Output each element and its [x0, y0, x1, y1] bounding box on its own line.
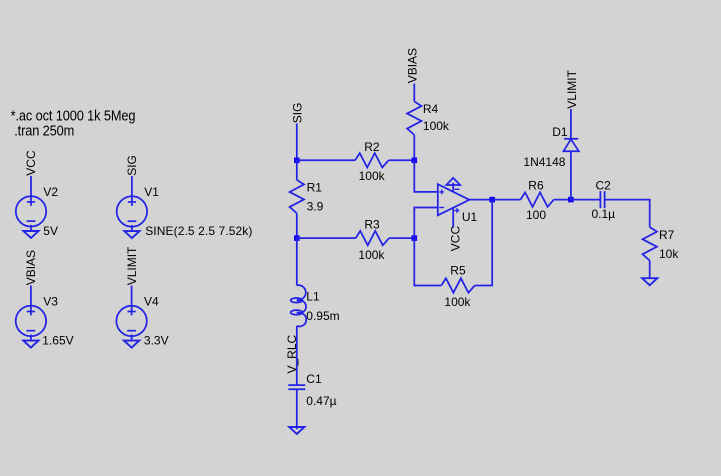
svg-text:0.95m: 0.95m — [306, 309, 339, 323]
wire feedback node D down — [414, 238, 441, 285]
wire SIG label to node A — [296, 123, 298, 160]
op-amp U1 — [438, 183, 470, 228]
svg-text:R4: R4 — [423, 102, 439, 116]
svg-text:VCC: VCC — [448, 226, 462, 252]
resistor R4 — [407, 101, 421, 134]
ground below C1 — [289, 427, 304, 434]
ground below R7 — [642, 278, 657, 285]
svg-text:.tran 250m: .tran 250m — [14, 122, 74, 139]
svg-text:C1: C1 — [306, 372, 322, 386]
inductor L1 — [291, 285, 307, 326]
diode D1 — [564, 139, 579, 151]
svg-text:SINE(2.5 2.5 7.52k): SINE(2.5 2.5 7.52k) — [145, 224, 252, 238]
svg-text:V3: V3 — [43, 295, 58, 309]
voltage source V2 — [16, 176, 46, 231]
svg-text:V1: V1 — [144, 185, 159, 199]
svg-text:100k: 100k — [358, 248, 385, 262]
ground below V4 — [124, 341, 139, 348]
svg-text:5V: 5V — [43, 224, 58, 238]
wire R2 to node B — [389, 159, 415, 161]
node D (R3 / op-amp -in / R5) (junction) — [412, 235, 418, 241]
resistor R1 — [290, 180, 304, 213]
svg-text:D1: D1 — [552, 125, 568, 139]
svg-text:VBIAS: VBIAS — [405, 48, 419, 83]
wire C1 to ground — [296, 389, 298, 429]
voltage source V3 — [16, 286, 46, 341]
svg-text:100: 100 — [526, 208, 546, 222]
svg-text:0.1µ: 0.1µ — [592, 207, 616, 221]
wire C2 to R7 — [605, 200, 650, 228]
wire node C to L1 — [296, 238, 298, 285]
wire R3 to node D — [389, 237, 414, 239]
wire R4 to node B — [413, 135, 415, 160]
svg-text:VBIAS: VBIAS — [24, 250, 38, 285]
svg-text:1.65V: 1.65V — [42, 333, 73, 347]
wire R6 to node F — [554, 199, 571, 201]
wire R5 to output riser — [475, 200, 493, 286]
voltage source V1 — [117, 176, 147, 231]
svg-text:R1: R1 — [307, 181, 323, 195]
node C (R1 / R3 / L1) (junction) — [294, 235, 300, 241]
resistor R5 — [441, 278, 474, 292]
svg-text:100k: 100k — [423, 119, 450, 133]
svg-text:VLIMIT: VLIMIT — [125, 246, 139, 285]
wire node F to C2 — [571, 199, 601, 201]
wire R1 bottom lead to node C — [296, 213, 298, 238]
ground (flipped) on op-amp V- pin — [446, 178, 460, 185]
svg-text:V4: V4 — [144, 295, 159, 309]
wire op-amp output to node E — [469, 199, 492, 201]
svg-text:R3: R3 — [364, 217, 380, 231]
svg-text:1N4148: 1N4148 — [523, 155, 565, 169]
svg-text:R5: R5 — [450, 264, 466, 278]
wire node B to op-amp noninverting input — [414, 160, 438, 192]
svg-text:10k: 10k — [659, 247, 679, 261]
svg-text:C2: C2 — [596, 178, 612, 192]
node F (R6 / D1 / C2) (junction) — [568, 197, 574, 203]
node A (SIG / R1 / R2) (junction) — [294, 158, 300, 164]
ground below V3 — [23, 341, 38, 348]
ground below V2 — [23, 231, 38, 238]
wire R1 top lead — [296, 160, 298, 180]
node B (R2 / R4 / op-amp +in) (junction) — [412, 158, 418, 164]
svg-text:0.47µ: 0.47µ — [306, 394, 336, 408]
svg-text:V_RLC: V_RLC — [285, 334, 299, 373]
node E (out / R6 / feedback) (junction) — [489, 197, 495, 203]
svg-text:3.3V: 3.3V — [144, 333, 169, 347]
svg-text:3.9: 3.9 — [307, 200, 324, 214]
svg-text:100k: 100k — [359, 169, 386, 183]
svg-text:SIG: SIG — [291, 103, 305, 124]
svg-text:R7: R7 — [659, 228, 675, 242]
wire node F to D1 anode — [570, 151, 572, 199]
resistor R7 — [643, 227, 657, 260]
svg-text:SIG: SIG — [125, 155, 139, 176]
svg-text:R6: R6 — [528, 178, 544, 192]
capacitor C2 — [600, 191, 604, 208]
wire R7 to ground — [649, 261, 651, 279]
wire D1 cathode to VLIMIT label — [570, 109, 572, 139]
wire VBIAS label to R4 — [413, 84, 415, 102]
wire node E to R6 — [492, 199, 520, 201]
resistor R3 — [356, 231, 389, 245]
svg-text:100k: 100k — [444, 295, 471, 309]
svg-text:V2: V2 — [43, 185, 58, 199]
svg-text:L1: L1 — [306, 290, 320, 304]
voltage source V4 — [116, 286, 146, 341]
svg-text:U1: U1 — [462, 210, 478, 224]
svg-text:R2: R2 — [364, 140, 380, 154]
wire node A to R2 — [297, 159, 355, 161]
svg-text:VCC: VCC — [24, 150, 38, 176]
capacitor C1 — [288, 385, 305, 389]
ground below V1 — [124, 231, 139, 238]
wire node C to R3 — [297, 237, 356, 239]
resistor R6 — [520, 192, 553, 206]
svg-text:VLIMIT: VLIMIT — [565, 69, 579, 108]
resistor R2 — [355, 153, 388, 167]
wire node D to op-amp inverting input — [414, 208, 438, 239]
wire L1 to C1 (net V_RLC) — [296, 326, 298, 385]
